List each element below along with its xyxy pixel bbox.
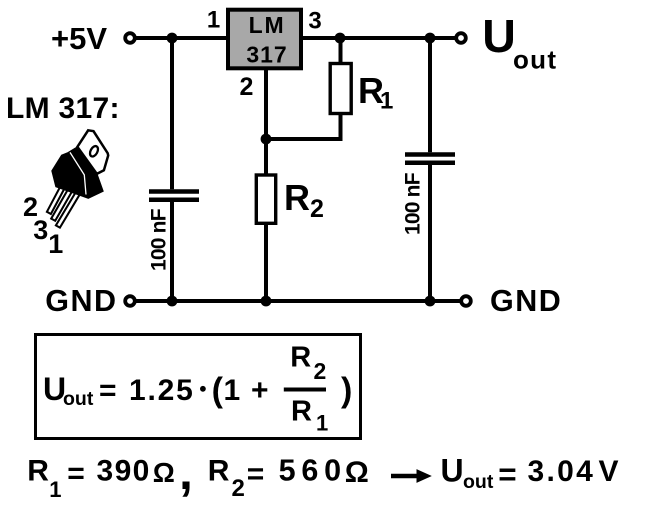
formula box frame	[36, 335, 361, 439]
svg-text:+: +	[251, 374, 269, 407]
svg-text:out: out	[463, 471, 494, 493]
wire R1 to pin2 node	[266, 137, 343, 141]
label Uout	[482, 10, 557, 74]
formula = 1.25	[99, 374, 195, 407]
label R1	[358, 70, 393, 115]
svg-text:317: 317	[246, 41, 287, 67]
svg-text:3: 3	[33, 215, 48, 245]
svg-text:100 nF: 100 nF	[402, 172, 425, 235]
terminal +5V input circle	[125, 33, 135, 43]
svg-text:2: 2	[314, 358, 327, 384]
package body	[52, 147, 103, 199]
package tab hole	[88, 145, 99, 158]
formula fraction bar	[284, 388, 326, 392]
svg-text:390: 390	[97, 455, 151, 488]
wire +5V rail to LM317 pin1	[136, 36, 228, 40]
junction input/C1 node	[167, 33, 178, 44]
equation R1 = 390 ohm	[27, 444, 193, 502]
svg-text:(: (	[212, 372, 224, 410]
wire GND rail	[136, 299, 461, 303]
package leg 3	[51, 187, 73, 221]
svg-text:Ω: Ω	[153, 457, 175, 488]
svg-text:2: 2	[310, 195, 324, 223]
svg-text:+5V: +5V	[51, 21, 107, 56]
wire R1 bottom lead	[339, 114, 343, 140]
svg-text:R: R	[291, 396, 312, 428]
svg-text:2: 2	[240, 73, 254, 101]
terminal GND right circle	[461, 296, 471, 306]
wire C1 upper lead	[170, 38, 174, 189]
package tab	[77, 130, 108, 174]
transistor package TO-220 drawing	[47, 130, 108, 227]
svg-text:1: 1	[48, 229, 63, 259]
resistor R2	[256, 175, 275, 223]
svg-text:560: 560	[279, 454, 347, 488]
svg-text:): )	[341, 372, 352, 410]
svg-text:2: 2	[232, 475, 245, 502]
wire C2 lower lead	[428, 165, 432, 301]
formula 1 +	[224, 374, 269, 407]
resistor R1	[330, 64, 351, 114]
svg-text:1.25: 1.25	[129, 374, 195, 407]
svg-text:Ω: Ω	[345, 456, 369, 489]
regulator U1 LM317 body	[228, 10, 301, 69]
wire R1 top lead	[339, 38, 343, 64]
junction C1/GND	[167, 296, 178, 307]
arrow implication	[391, 469, 432, 483]
formula fraction R1 denominator	[291, 396, 328, 436]
svg-text:=: =	[498, 456, 516, 492]
junction C2/GND	[425, 296, 436, 307]
svg-text:=: =	[247, 458, 265, 491]
equation R2 = 560 ohm	[208, 454, 369, 503]
formula Uout	[43, 371, 94, 410]
svg-text:100 nF: 100 nF	[148, 208, 171, 271]
svg-text:out: out	[513, 45, 557, 75]
svg-text:1: 1	[380, 88, 393, 115]
svg-text:GND: GND	[490, 284, 562, 318]
package leg 1	[56, 190, 81, 228]
label R2	[284, 177, 324, 223]
wire C1 lower lead	[170, 202, 174, 301]
svg-text:3.04: 3.04	[528, 455, 596, 488]
svg-text:LM 317:: LM 317:	[6, 92, 120, 125]
svg-text:LM: LM	[249, 12, 286, 38]
equation result Uout = 3.04 V	[441, 453, 619, 493]
svg-text:=: =	[99, 374, 117, 407]
wire C2 upper lead	[428, 38, 432, 152]
svg-text:1: 1	[224, 374, 241, 407]
junction R1 top node	[335, 33, 346, 44]
capacitor C2 plates	[405, 155, 455, 163]
wire LM317 pin2 down	[264, 68, 268, 175]
wire LM317 pin3 to output	[303, 36, 455, 40]
svg-text:1: 1	[49, 477, 61, 502]
svg-text:V: V	[599, 455, 619, 488]
svg-text:U: U	[482, 10, 516, 62]
formula fraction R2 numerator	[290, 342, 326, 385]
package leg 2	[47, 184, 66, 214]
terminal GND left circle	[125, 296, 135, 306]
svg-text:R: R	[208, 455, 230, 488]
svg-text:GND: GND	[45, 284, 117, 318]
svg-text:R: R	[290, 342, 311, 374]
svg-text:R: R	[27, 455, 49, 488]
junction pin2/R1/R2 node	[261, 134, 272, 145]
wire R2 bottom lead	[264, 223, 268, 301]
terminal Uout circle	[456, 33, 466, 43]
svg-text:1: 1	[207, 7, 220, 34]
svg-text:=: =	[67, 457, 85, 490]
svg-text:U: U	[441, 453, 464, 489]
svg-text:1: 1	[316, 411, 328, 436]
package body edge highlight	[70, 152, 86, 194]
junction C2 top node	[425, 33, 436, 44]
formula multiplication dot	[200, 386, 206, 392]
svg-text:,: ,	[179, 444, 193, 500]
svg-text:3: 3	[308, 8, 321, 35]
capacitor C1 plates	[149, 192, 199, 200]
svg-text:out: out	[63, 388, 94, 410]
svg-text:R: R	[284, 177, 310, 218]
junction R2/GND	[261, 296, 272, 307]
